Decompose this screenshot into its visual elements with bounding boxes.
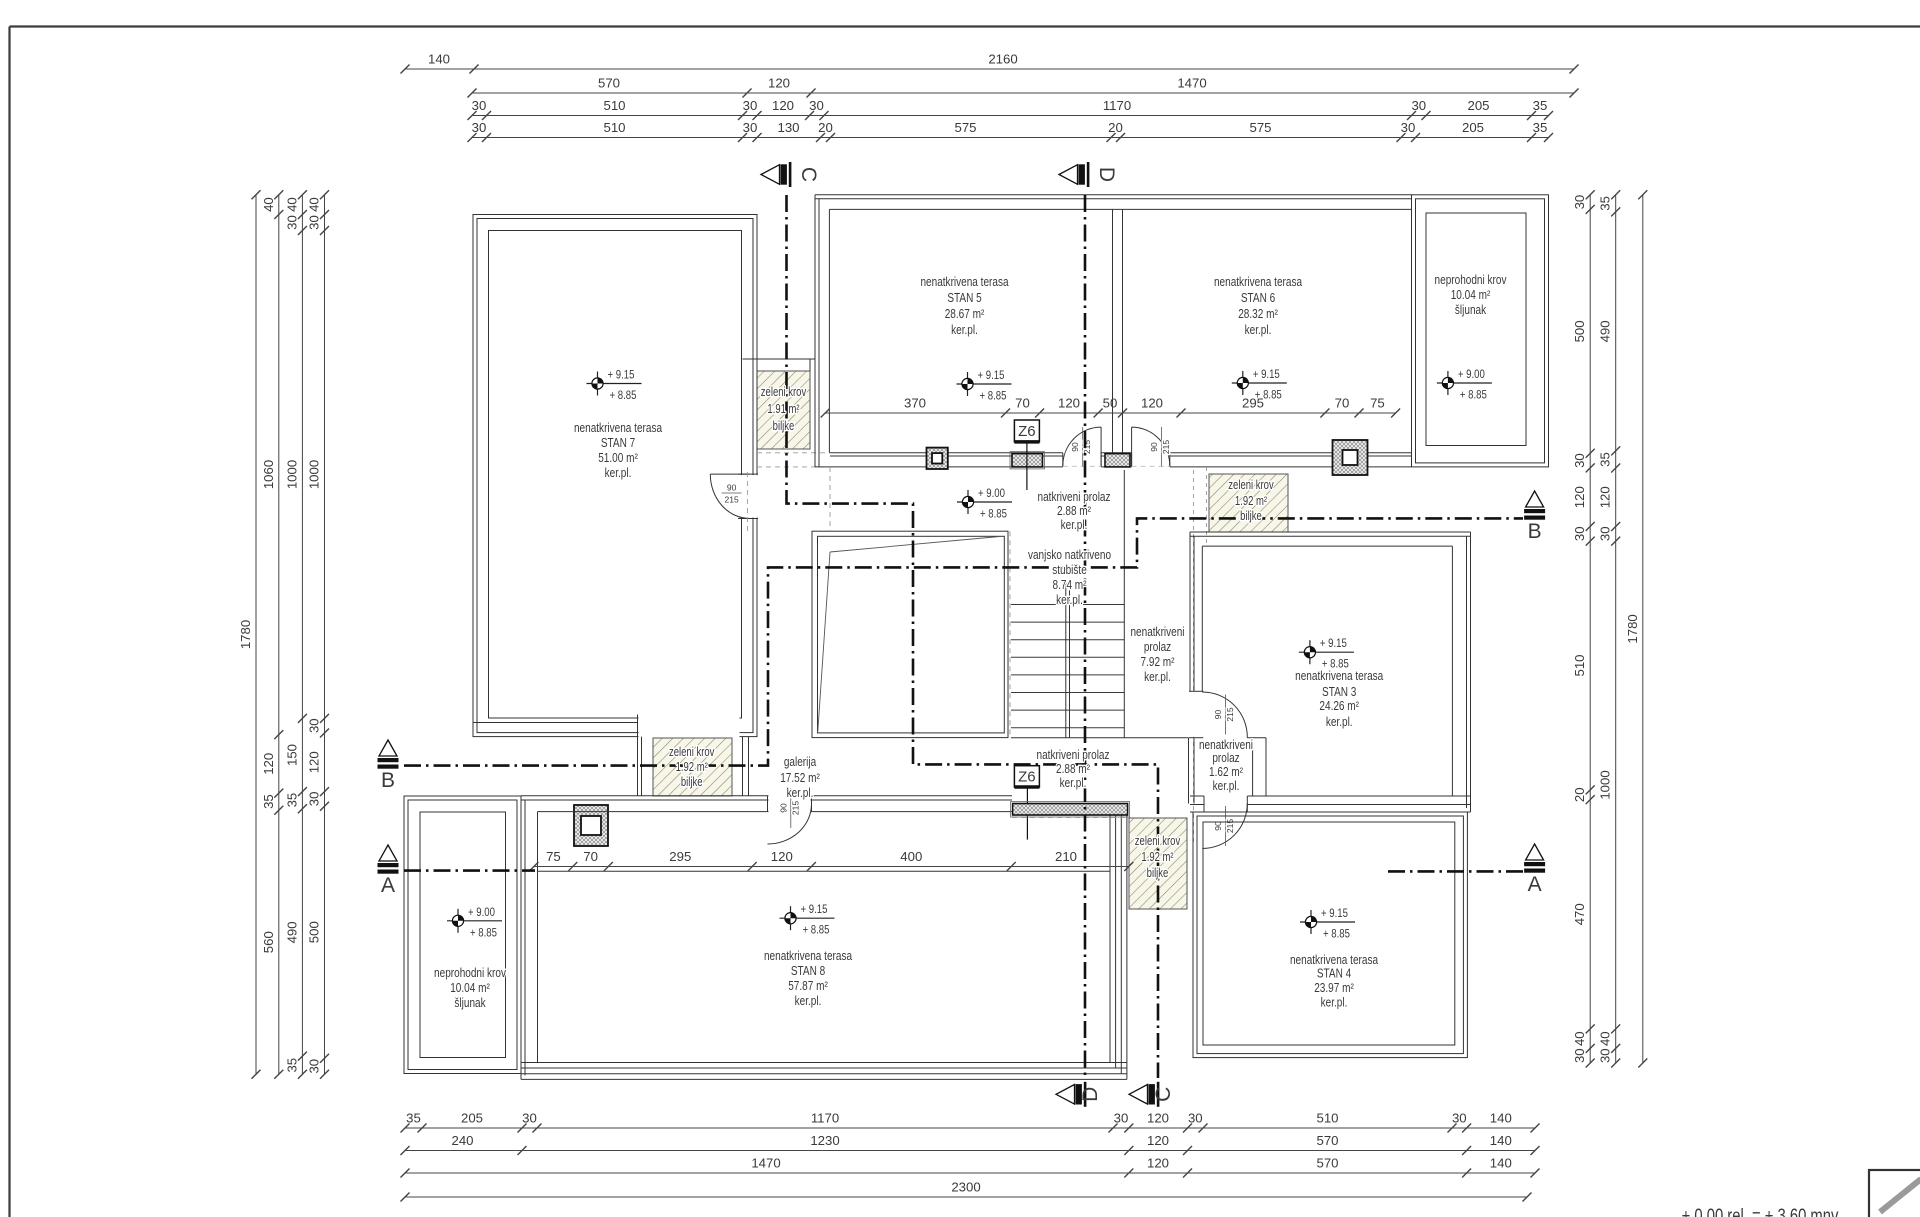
svg-text:+ 8.85: + 8.85 <box>1255 389 1282 402</box>
svg-text:2300: 2300 <box>951 1180 980 1195</box>
svg-text:90: 90 <box>727 483 737 493</box>
STAN 3 right wall <box>1470 532 1472 812</box>
svg-text:205: 205 <box>461 1111 483 1126</box>
elevation marker + 9.15/+ 8.85 <box>1232 368 1287 402</box>
svg-text:140: 140 <box>428 52 450 67</box>
svg-text:70: 70 <box>583 849 598 864</box>
svg-text:120: 120 <box>1141 396 1163 411</box>
svg-text:+ 9.15: + 9.15 <box>1253 368 1280 381</box>
svg-text:ker.pl.: ker.pl. <box>1245 323 1272 338</box>
svg-text:30: 30 <box>1411 98 1426 113</box>
svg-text:240: 240 <box>451 1133 473 1148</box>
svg-text:+ 9.15: + 9.15 <box>1320 637 1347 650</box>
STAN 7 bottom wall opening <box>639 714 740 738</box>
STAN 8 left wall <box>520 796 522 1080</box>
STAN 5/6 top wall <box>815 194 1412 196</box>
top dimension row 4 (30/510/30/130/20/575/20/575/30/205/35) <box>472 137 1549 139</box>
svg-text:biljke: biljke <box>1147 867 1169 881</box>
svg-text:215: 215 <box>725 495 739 505</box>
svg-text:B: B <box>1528 520 1542 543</box>
svg-text:35: 35 <box>406 1111 421 1126</box>
svg-text:120: 120 <box>1147 1133 1169 1148</box>
svg-text:nenatkriveni: nenatkriveni <box>1130 625 1184 640</box>
svg-text:nenatkrivena terasa: nenatkrivena terasa <box>1214 275 1302 290</box>
svg-text:35: 35 <box>261 794 276 809</box>
svg-text:215: 215 <box>1161 440 1171 454</box>
stairs divider <box>1065 580 1067 738</box>
svg-text:90: 90 <box>1070 442 1080 452</box>
svg-text:205: 205 <box>1462 120 1484 135</box>
svg-text:510: 510 <box>603 98 625 113</box>
svg-text:D: D <box>1095 167 1118 182</box>
svg-text:ker.pl.: ker.pl. <box>605 466 632 481</box>
STAN 8 bottom wall <box>521 1062 1127 1064</box>
svg-text:140: 140 <box>1490 1156 1512 1171</box>
svg-text:2.88 m²: 2.88 m² <box>1057 504 1091 519</box>
svg-text:ker.pl.: ker.pl. <box>787 786 814 801</box>
section marker B (right) <box>1524 491 1545 543</box>
svg-text:+ 8.85: + 8.85 <box>1460 389 1487 402</box>
svg-text:40: 40 <box>261 197 276 212</box>
bottom dimension row 3 (1470/120/570/140) <box>405 1172 1535 1174</box>
elevation marker + 9.15/+ 8.85 <box>1300 907 1355 941</box>
svg-text:120: 120 <box>1147 1111 1169 1126</box>
elevation marker + 9.15/+ 8.85 <box>587 369 642 403</box>
svg-text:57.87 m²: 57.87 m² <box>788 979 828 994</box>
svg-text:+ 9.15: + 9.15 <box>801 903 828 916</box>
galerija roof slope lines <box>830 537 1000 553</box>
svg-text:510: 510 <box>1316 1111 1338 1126</box>
svg-text:1000: 1000 <box>307 460 322 489</box>
svg-text:nenatkrivena terasa: nenatkrivena terasa <box>574 421 662 436</box>
section line C-C <box>787 195 1159 1078</box>
svg-text:+ 9.15: + 9.15 <box>608 369 635 382</box>
svg-text:50: 50 <box>1103 396 1118 411</box>
svg-text:140: 140 <box>1490 1133 1512 1148</box>
svg-text:30: 30 <box>743 98 758 113</box>
svg-text:30: 30 <box>1188 1111 1203 1126</box>
zeleni krov hatch mid-right <box>1209 474 1288 532</box>
svg-text:500: 500 <box>307 921 322 943</box>
svg-text:40: 40 <box>284 197 299 212</box>
STAN 8 right wall <box>1109 815 1111 1063</box>
svg-text:30: 30 <box>1598 526 1613 541</box>
svg-text:470: 470 <box>1572 903 1587 925</box>
svg-text:ker.pl.: ker.pl. <box>1213 779 1240 794</box>
svg-text:120: 120 <box>771 849 793 864</box>
svg-text:+ 9.00: + 9.00 <box>978 487 1005 500</box>
corner box with diagonal <box>1869 1170 1920 1217</box>
neprohodni krov (top right) walls <box>1412 195 1549 467</box>
svg-text:570: 570 <box>1316 1156 1338 1171</box>
svg-text:30: 30 <box>1572 1048 1587 1063</box>
svg-text:35: 35 <box>1598 452 1613 467</box>
svg-text:natkriveni prolaz: natkriveni prolaz <box>1037 490 1110 505</box>
top dimension row 2 (570/120/1470) <box>472 92 1574 94</box>
svg-text:24.26 m²: 24.26 m² <box>1319 699 1359 714</box>
svg-text:biljke: biljke <box>773 420 795 434</box>
stairs left dashed boundary <box>1009 531 1011 738</box>
svg-text:215: 215 <box>1225 707 1235 721</box>
STAN 7 outer walls <box>473 215 757 737</box>
bottom dimension row 2 (240/1230/120/570/140) <box>405 1150 1535 1152</box>
zeleni krov hatch top-left <box>757 371 810 449</box>
svg-text:130: 130 <box>777 120 799 135</box>
svg-text:120: 120 <box>1598 486 1613 508</box>
threshold dashes across door openings <box>1063 465 1101 467</box>
svg-text:51.00 m²: 51.00 m² <box>598 451 638 466</box>
section line D-D <box>1084 195 1087 1078</box>
svg-text:90: 90 <box>778 803 788 813</box>
svg-text:30: 30 <box>1598 1048 1613 1063</box>
svg-text:17.52 m²: 17.52 m² <box>780 771 820 786</box>
section marker C (bottom) <box>1129 1082 1175 1107</box>
STAN 5/6 bottom wall <box>830 452 1412 454</box>
STAN 7 door opening (right wall) <box>738 475 759 517</box>
section line B-B <box>404 518 1523 765</box>
svg-text:40: 40 <box>1598 1031 1613 1046</box>
svg-text:150: 150 <box>284 744 299 766</box>
svg-text:zeleni krov: zeleni krov <box>1228 479 1274 493</box>
svg-text:prolaz: prolaz <box>1212 751 1239 766</box>
svg-text:205: 205 <box>1467 98 1489 113</box>
section marker A (right) <box>1524 844 1545 896</box>
svg-text:neprohodni krov: neprohodni krov <box>1435 273 1507 288</box>
svg-text:70: 70 <box>1015 396 1030 411</box>
elevation marker + 9.00/+ 8.85 <box>957 487 1012 521</box>
svg-text:ker.pl.: ker.pl. <box>1326 715 1353 730</box>
STAN 7 door leaf and swing <box>710 473 750 475</box>
door 2 leaf and swing <box>1131 427 1133 466</box>
door 1 leaf and swing <box>1100 427 1102 466</box>
section marker D (bottom) <box>1056 1082 1102 1107</box>
bottom dimension row 1 (35/205/30/1170/30/120/30/510/30/140) <box>405 1127 1535 1129</box>
svg-text:40: 40 <box>1572 1031 1587 1046</box>
svg-text:28.67 m²: 28.67 m² <box>945 307 985 322</box>
stairs bottom edge <box>1011 737 1189 739</box>
svg-text:295: 295 <box>669 849 691 864</box>
svg-text:28.32 m²: 28.32 m² <box>1238 307 1278 322</box>
svg-text:1170: 1170 <box>1103 98 1131 113</box>
svg-text:1.92 m²: 1.92 m² <box>1141 851 1173 865</box>
svg-text:ker.pl.: ker.pl. <box>951 323 978 338</box>
svg-text:1.92 m²: 1.92 m² <box>1235 495 1267 509</box>
svg-text:120: 120 <box>1058 396 1080 411</box>
svg-text:30: 30 <box>1114 1111 1129 1126</box>
chimney in STAN6 <box>1333 440 1368 475</box>
svg-text:šljunak: šljunak <box>454 996 485 1011</box>
svg-text:C: C <box>1152 1087 1175 1102</box>
svg-text:1000: 1000 <box>1598 770 1613 799</box>
svg-text:prolaz: prolaz <box>1144 640 1171 655</box>
svg-text:STAN 8: STAN 8 <box>791 964 826 979</box>
svg-text:140: 140 <box>1490 1111 1512 1126</box>
svg-text:20: 20 <box>1108 120 1123 135</box>
section marker C (top) <box>761 162 820 187</box>
svg-text:510: 510 <box>1572 654 1587 676</box>
neprohodni krov (bottom left) walls <box>404 796 521 1074</box>
svg-text:STAN 4: STAN 4 <box>1317 966 1352 981</box>
svg-text:8.74 m²: 8.74 m² <box>1052 578 1086 593</box>
svg-text:20: 20 <box>1572 787 1587 802</box>
svg-text:A: A <box>381 874 395 897</box>
svg-text:35: 35 <box>1533 98 1548 113</box>
svg-text:20: 20 <box>818 120 833 135</box>
galerija walls <box>812 531 1008 737</box>
svg-text:1170: 1170 <box>811 1111 839 1126</box>
svg-text:B: B <box>381 769 395 792</box>
svg-text:+ 0.00 rel. = + 3.60 mnv: + 0.00 rel. = + 3.60 mnv <box>1682 1205 1839 1217</box>
Z6 box (bottom) <box>1026 787 1028 840</box>
svg-text:A: A <box>1528 873 1542 896</box>
svg-text:stubište: stubište <box>1052 563 1087 578</box>
door opening 2 in STAN6 bottom wall <box>1132 452 1170 468</box>
svg-text:30: 30 <box>472 98 487 113</box>
zeleni krov hatch bottom-left <box>653 738 732 796</box>
svg-text:nenatkrivena terasa: nenatkrivena terasa <box>764 949 852 964</box>
elevation marker + 9.00/+ 8.85 <box>1437 368 1492 402</box>
svg-text:23.97 m²: 23.97 m² <box>1314 981 1354 996</box>
svg-text:30: 30 <box>1401 120 1416 135</box>
svg-text:1.62 m²: 1.62 m² <box>1209 765 1243 780</box>
svg-text:1000: 1000 <box>284 460 299 489</box>
svg-text:+ 9.00: + 9.00 <box>1458 368 1485 381</box>
svg-text:Z6: Z6 <box>1018 769 1036 786</box>
STAN 3 lower door (bottom wall) <box>1204 795 1247 813</box>
svg-text:215: 215 <box>790 801 800 815</box>
left dimension column 4 (40/30/1000/30/120/30/500/30) <box>324 195 326 1075</box>
svg-text:nenatkrivena terasa: nenatkrivena terasa <box>920 275 1008 290</box>
svg-text:400: 400 <box>900 849 922 864</box>
left dimension column 2 (40/1060/120/35/560/35) <box>278 195 280 1075</box>
galerija door in STAN 8 top wall <box>769 795 811 813</box>
axis dashes through mid-right zeleni krov <box>1206 467 1208 543</box>
right dimension column 3 (1780) <box>1642 195 1644 1063</box>
svg-text:+ 9.00: + 9.00 <box>468 906 495 919</box>
svg-text:1230: 1230 <box>810 1133 839 1148</box>
svg-text:120: 120 <box>307 751 322 773</box>
elevation marker + 9.15/+ 8.85 <box>780 903 835 937</box>
svg-text:10.04 m²: 10.04 m² <box>450 981 490 996</box>
STAN 7 inner wall line <box>489 231 742 719</box>
dim row inside STAN5/6 (370/70/120/50/120/295/70/75) <box>825 412 1395 414</box>
svg-text:30: 30 <box>307 1059 322 1074</box>
section marker D (top) <box>1059 162 1118 187</box>
prolaz dashed boundaries <box>829 467 831 531</box>
svg-text:ker.pl.: ker.pl. <box>1056 593 1083 608</box>
svg-text:120: 120 <box>1572 486 1587 508</box>
svg-text:30: 30 <box>1452 1111 1467 1126</box>
svg-text:215: 215 <box>1225 819 1235 833</box>
svg-text:STAN 5: STAN 5 <box>947 291 982 306</box>
STAN 5/6 divider wall <box>1112 209 1114 453</box>
STAN 7 bottom wall extra line <box>473 722 638 724</box>
top dimension row 1 (140 / 2160) <box>405 68 1574 70</box>
svg-text:ker.pl.: ker.pl. <box>1060 776 1087 791</box>
window bar 1 (crosshatch) <box>1010 452 1045 469</box>
svg-text:+ 9.15: + 9.15 <box>978 369 1005 382</box>
svg-text:30: 30 <box>307 718 322 733</box>
right dimension column 2 (35/490/35/120/30/1000/40/30) <box>1615 195 1617 1063</box>
svg-text:40: 40 <box>307 197 322 212</box>
svg-text:90: 90 <box>1213 710 1223 720</box>
svg-text:120: 120 <box>768 76 790 91</box>
svg-text:35: 35 <box>1598 196 1613 211</box>
svg-text:500: 500 <box>1572 320 1587 342</box>
svg-text:75: 75 <box>1370 396 1385 411</box>
svg-text:+ 8.85: + 8.85 <box>470 926 497 939</box>
svg-text:30: 30 <box>809 98 824 113</box>
svg-text:+ 8.85: + 8.85 <box>610 389 637 402</box>
svg-text:75: 75 <box>546 849 561 864</box>
svg-text:30: 30 <box>284 215 299 230</box>
svg-text:30: 30 <box>307 215 322 230</box>
svg-text:2160: 2160 <box>988 52 1017 67</box>
svg-text:90: 90 <box>1149 442 1159 452</box>
svg-text:560: 560 <box>261 931 276 953</box>
svg-text:70: 70 <box>1335 396 1350 411</box>
svg-text:+ 8.85: + 8.85 <box>1323 928 1350 941</box>
svg-text:575: 575 <box>954 120 976 135</box>
svg-text:1470: 1470 <box>1177 76 1206 91</box>
svg-text:1780: 1780 <box>238 620 253 649</box>
svg-text:30: 30 <box>743 120 758 135</box>
left dimension column 3 (40/30/1000/150/35/490/35) <box>301 195 303 1075</box>
stairs right edge <box>1123 470 1125 738</box>
svg-text:30: 30 <box>522 1111 537 1126</box>
svg-text:natkriveni prolaz: natkriveni prolaz <box>1036 748 1109 763</box>
Z6 box (top) <box>1026 442 1028 490</box>
svg-text:490: 490 <box>1598 320 1613 342</box>
top dimension row 3 (30/510/30/120/30/1170/30/205/35) <box>472 115 1549 117</box>
svg-text:zeleni krov: zeleni krov <box>1135 835 1181 849</box>
svg-text:+ 8.85: + 8.85 <box>980 508 1007 521</box>
svg-text:STAN 3: STAN 3 <box>1322 685 1356 700</box>
svg-text:370: 370 <box>904 396 926 411</box>
svg-text:vanjsko natkriveno: vanjsko natkriveno <box>1028 548 1111 563</box>
svg-text:120: 120 <box>261 753 276 775</box>
elevation marker + 9.15/+ 8.85 <box>957 369 1012 403</box>
wall line above top-left zeleni krov <box>743 358 816 360</box>
svg-text:galerija: galerija <box>784 755 817 770</box>
svg-text:1780: 1780 <box>1625 614 1640 643</box>
door opening 1 in STAN5 bottom wall <box>1063 452 1101 468</box>
svg-text:210: 210 <box>1055 849 1077 864</box>
elevation marker + 9.00/+ 8.85 <box>447 906 502 940</box>
svg-text:570: 570 <box>1316 1133 1338 1148</box>
section marker A (left) <box>378 845 399 897</box>
elevation marker + 9.15/+ 8.85 <box>1299 637 1354 671</box>
svg-text:1060: 1060 <box>261 460 276 489</box>
STAN 4 walls <box>1193 812 1467 1058</box>
nenatkriveni prolaz 1.62 room walls <box>1188 738 1190 804</box>
svg-text:2.88 m²: 2.88 m² <box>1056 762 1090 777</box>
section line A-A (right) <box>1388 870 1523 873</box>
stairs treads <box>1011 604 1124 606</box>
svg-text:120: 120 <box>772 98 794 113</box>
svg-text:STAN 7: STAN 7 <box>601 436 635 451</box>
zeleni krov hatch bottom-middle <box>1129 818 1187 909</box>
STAN 8 inner top line <box>538 870 1111 872</box>
STAN 3 left wall <box>1189 532 1191 691</box>
svg-text:1.92 m²: 1.92 m² <box>676 761 708 775</box>
window bar 2 (crosshatch) <box>1105 454 1130 467</box>
svg-text:ker.pl.: ker.pl. <box>1144 670 1171 685</box>
svg-text:570: 570 <box>598 76 620 91</box>
STAN 8 top wall <box>521 795 1012 797</box>
svg-text:D: D <box>1079 1087 1102 1102</box>
svg-text:30: 30 <box>1572 195 1587 210</box>
svg-text:120: 120 <box>1147 1156 1169 1171</box>
svg-text:1470: 1470 <box>751 1156 780 1171</box>
bottom dimension row 4 (2300) <box>405 1196 1527 1198</box>
svg-text:510: 510 <box>603 120 625 135</box>
svg-text:30: 30 <box>472 120 487 135</box>
svg-text:ker.pl.: ker.pl. <box>795 994 822 1009</box>
long crosshatch bar (STAN 8 top right) <box>1011 802 1130 818</box>
svg-text:ker.pl.: ker.pl. <box>1321 995 1348 1010</box>
chimney in STAN8 <box>574 805 608 846</box>
dashed parapet below top-left zeleni krov <box>757 452 830 454</box>
svg-text:nenatkrivena terasa: nenatkrivena terasa <box>1290 953 1378 968</box>
svg-text:ker.pl.: ker.pl. <box>1061 518 1088 533</box>
svg-text:575: 575 <box>1249 120 1271 135</box>
svg-text:nenatkrivena terasa: nenatkrivena terasa <box>1295 669 1383 684</box>
STAN 3 outer walls <box>1190 531 1471 533</box>
svg-text:Z6: Z6 <box>1018 423 1036 440</box>
STAN 3 bottom wall <box>1190 795 1471 797</box>
svg-text:30: 30 <box>1572 453 1587 468</box>
left dimension column 1 (1780) <box>255 195 257 1075</box>
svg-text:šljunak: šljunak <box>1455 303 1486 318</box>
STAN 5 left wall <box>814 195 816 467</box>
svg-text:35: 35 <box>284 793 299 808</box>
svg-text:+ 9.15: + 9.15 <box>1321 907 1348 920</box>
svg-text:7.92 m²: 7.92 m² <box>1140 655 1174 670</box>
svg-text:C: C <box>797 167 820 182</box>
svg-text:30: 30 <box>1572 526 1587 541</box>
svg-text:neprohodni krov: neprohodni krov <box>434 966 506 981</box>
svg-text:biljke: biljke <box>681 776 703 790</box>
chimney in STAN5 <box>927 448 948 469</box>
right dimension column 1 (30/500/30/120/30/510/20/470/40/30) <box>1589 195 1591 1063</box>
svg-text:zeleni krov: zeleni krov <box>761 386 807 400</box>
dim row 75/70/295/120/400/210 <box>534 866 1129 868</box>
svg-text:zeleni krov: zeleni krov <box>669 746 715 760</box>
svg-text:490: 490 <box>284 921 299 943</box>
svg-text:+ 8.85: + 8.85 <box>803 924 830 937</box>
svg-text:35: 35 <box>284 1058 299 1073</box>
svg-text:biljke: biljke <box>1240 510 1262 524</box>
svg-text:+ 8.85: + 8.85 <box>980 390 1007 403</box>
section line A-A (left) <box>404 869 535 872</box>
section marker B (left) <box>378 740 399 792</box>
svg-text:STAN 6: STAN 6 <box>1241 291 1275 306</box>
svg-text:1.91 m²: 1.91 m² <box>767 403 799 417</box>
svg-text:30: 30 <box>307 792 322 807</box>
svg-text:10.04 m²: 10.04 m² <box>1451 288 1491 303</box>
svg-text:35: 35 <box>1533 120 1548 135</box>
STAN 3 upper door (left wall) <box>1189 692 1203 736</box>
border frame <box>10 25 1920 27</box>
